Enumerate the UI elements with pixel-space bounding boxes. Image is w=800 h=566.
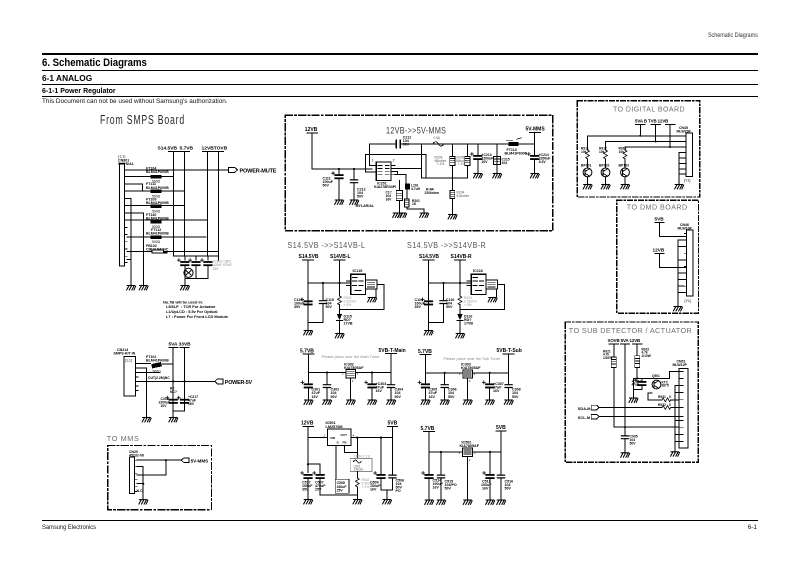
ground digital q1 xyxy=(583,185,592,189)
svg-text:5V-MMS: 5V-MMS xyxy=(191,458,209,463)
wire 5V-MMS row xyxy=(137,459,181,461)
capacitor C304 xyxy=(387,373,403,401)
ground cluster xyxy=(629,398,638,402)
svg-text:CUT(2.2M)NC: CUT(2.2M)NC xyxy=(148,376,170,380)
capacitor C211 xyxy=(396,135,411,148)
port SCL-M xyxy=(578,414,599,420)
svg-text:NC?: NC? xyxy=(170,390,177,394)
ground caps xyxy=(181,286,190,290)
capacitor C307 xyxy=(482,373,503,400)
wire POWER-MUTE row xyxy=(127,169,229,171)
svg-text:5VA B TVB 12VB: 5VA B TVB 12VB xyxy=(635,118,668,123)
capacitor C111 xyxy=(323,169,344,200)
svg-text:3: 3 xyxy=(474,451,476,455)
ground lin5 xyxy=(497,500,506,504)
svg-text:IC116: IC116 xyxy=(473,269,483,273)
junction sw out xyxy=(356,437,358,439)
node S14VB-L label xyxy=(330,254,351,260)
wire digital gnd bus xyxy=(679,153,684,185)
resistor R323 xyxy=(338,296,357,307)
svg-text:PO: PO xyxy=(396,489,401,493)
svg-text:BP103: BP103 xyxy=(619,164,629,168)
wire 12VB bus vertical xyxy=(202,152,212,257)
node 12VB dmd label xyxy=(653,248,665,254)
svg-text:25V: 25V xyxy=(315,488,322,492)
node 5VB dmd label xyxy=(655,217,665,223)
svg-text:N.C: N.C xyxy=(137,489,144,493)
svg-text:220kohm: 220kohm xyxy=(425,191,440,195)
ground main5 xyxy=(387,400,396,404)
resistor R931 xyxy=(648,393,679,402)
svg-text:25V: 25V xyxy=(337,488,344,492)
resistor R204 xyxy=(450,190,469,214)
svg-text:BLM41P600B: BLM41P600B xyxy=(505,151,528,155)
inductor L201 xyxy=(405,183,421,191)
ground sw right xyxy=(383,500,392,504)
svg-text:50V: 50V xyxy=(630,441,637,445)
ground left1 xyxy=(127,286,136,290)
node 5.7VB label main xyxy=(300,348,314,354)
wire SDA row xyxy=(599,406,662,408)
svg-text:POWER-5V: POWER-5V xyxy=(225,380,253,386)
capacitor C508 xyxy=(335,479,349,493)
ground sub5 xyxy=(504,400,513,404)
capacitor C308 xyxy=(505,373,521,400)
ground main4 xyxy=(368,400,377,404)
ground sw left xyxy=(304,500,313,504)
diode D116 zener xyxy=(457,314,473,326)
svg-text:+-5%: +-5% xyxy=(464,303,472,307)
svg-text:5VB-T-Main: 5VB-T-Main xyxy=(379,348,406,354)
connector CN214 xyxy=(114,348,139,396)
ground C215 xyxy=(493,174,502,178)
junction mms xyxy=(165,459,167,461)
wire caps tie power5v xyxy=(173,403,184,417)
svg-text:From SMPS Board: From SMPS Board xyxy=(100,113,185,127)
svg-text:TO DMD BOARD: TO DMD BOARD xyxy=(627,202,688,211)
svg-text:16V: 16V xyxy=(493,389,500,393)
capacitor C301 xyxy=(301,373,321,401)
svg-text:SDA-M: SDA-M xyxy=(578,406,591,411)
svg-text:5VB: 5VB xyxy=(496,425,506,431)
svg-text:+-1%: +-1% xyxy=(458,162,466,166)
svg-text:2884.2.18: 2884.2.18 xyxy=(354,455,370,459)
wire 12VB dmd xyxy=(660,253,687,267)
transistor BP102 xyxy=(599,164,610,185)
svg-text:OUT: OUT xyxy=(341,433,348,437)
wire sw bottom rail xyxy=(320,495,357,500)
svg-text:16V: 16V xyxy=(188,402,195,406)
ferrite bead FT111 xyxy=(146,182,169,198)
connector CN901 xyxy=(673,359,688,448)
resistor R921 xyxy=(603,349,616,367)
node 5.7VB label sub xyxy=(418,349,432,355)
node TO DMD BOARD border xyxy=(617,200,699,313)
svg-text:1/10W: 1/10W xyxy=(642,354,651,358)
svg-text:R931: R931 xyxy=(658,395,666,399)
ground digital bus xyxy=(675,185,684,189)
junction R2 xyxy=(459,282,461,284)
wire S14VB-L output line xyxy=(339,260,341,334)
svg-text:5.7VB: 5.7VB xyxy=(418,349,432,355)
svg-text:10k: 10k xyxy=(619,150,625,154)
inductor L501 xyxy=(350,455,372,472)
transistor BP101 xyxy=(581,164,592,185)
IC IC502 xyxy=(459,441,480,500)
wire IC201 right staircase xyxy=(391,169,421,184)
wire sub det feeds xyxy=(609,344,642,435)
wire IC501 fb leg xyxy=(336,438,357,480)
junction cluster xyxy=(636,377,638,379)
svg-text:5VB-T-Sub: 5VB-T-Sub xyxy=(497,348,522,354)
wire digital feeds xyxy=(636,124,675,147)
ground digital q3 xyxy=(621,185,630,189)
transistor Q901 xyxy=(652,374,669,389)
ground power5v left xyxy=(142,418,151,422)
svg-text:1/10W: 1/10W xyxy=(603,356,612,360)
wire row pin4 to 5.7VB xyxy=(127,190,185,192)
svg-text:L7 : Power For Front-LCD Modul: L7 : Power For Front-LCD Module xyxy=(166,314,229,319)
capacitor C217 xyxy=(177,395,198,406)
junction xovb cap xyxy=(624,426,626,428)
svg-text:R932: R932 xyxy=(658,403,666,407)
wire IC116 right loop xyxy=(460,285,505,310)
svg-text:SCL-M: SCL-M xyxy=(578,415,590,420)
node S14VB-R label xyxy=(451,254,473,260)
svg-text:12VB: 12VB xyxy=(301,420,314,426)
wire digital h2 xyxy=(606,141,687,143)
svg-text:47uF: 47uF xyxy=(632,383,639,387)
svg-text:16V: 16V xyxy=(370,488,377,492)
resistor R922 xyxy=(635,347,651,367)
wire row pin2 to S14.5VB xyxy=(127,176,174,178)
wire row pin13 stub xyxy=(127,258,131,260)
svg-text:50V: 50V xyxy=(403,143,410,147)
svg-text:S14.5VB: S14.5VB xyxy=(158,146,178,152)
junction 12vb tap xyxy=(307,463,309,465)
svg-text:5.6kohm: 5.6kohm xyxy=(457,194,470,198)
junction sub bus xyxy=(444,372,446,374)
ground sub2 xyxy=(440,400,449,404)
node 5VB-T-Sub label xyxy=(497,348,522,354)
svg-text:1K: 1K xyxy=(412,202,417,206)
svg-text:12VB->>5V-MMS: 12VB->>5V-MMS xyxy=(386,126,446,136)
ground C113 xyxy=(304,331,313,335)
svg-text:(1,1): (1,1) xyxy=(125,358,132,362)
svg-text:S14.5VB: S14.5VB xyxy=(299,254,319,260)
wire S14VB-R output line xyxy=(459,260,461,334)
svg-text:104: 104 xyxy=(502,161,508,165)
svg-text:5VB: 5VB xyxy=(388,420,398,426)
capacitor C802 xyxy=(189,259,201,267)
node 390 label xyxy=(170,386,177,393)
node 5VB label lin xyxy=(496,425,506,431)
node 5VB-T-Main label xyxy=(379,348,406,354)
svg-text:TO SUB DETECTOR / ACTUATOR: TO SUB DETECTOR / ACTUATOR xyxy=(569,326,692,335)
ferrite bead FT104 xyxy=(146,167,169,184)
IC IC115 xyxy=(346,269,377,294)
ground C111 xyxy=(335,200,344,204)
wire row pin3 jog xyxy=(127,184,143,191)
IC IC302 xyxy=(342,362,364,400)
svg-text:BLM41P600B: BLM41P600B xyxy=(146,170,169,174)
ferrite bead FT140 xyxy=(146,213,169,229)
ferrite bead FT109 xyxy=(146,197,169,213)
wire row pin10 xyxy=(127,236,206,238)
svg-text:35V: 35V xyxy=(294,305,301,309)
svg-text:S14.5VB ->>S14VB-L: S14.5VB ->>S14VB-L xyxy=(288,241,366,250)
resistor FB102 xyxy=(146,244,169,253)
junction lin bus xyxy=(440,451,442,453)
connector CN860 xyxy=(677,126,693,182)
wire main tuner bus xyxy=(308,354,391,373)
resistor R911 xyxy=(581,136,589,168)
svg-text:5V-MMS: 5V-MMS xyxy=(526,127,546,133)
wire sub tuner bus xyxy=(425,354,508,373)
svg-text:35V: 35V xyxy=(415,305,422,309)
wire POWER-5V row xyxy=(138,380,215,382)
wire IC115 right loop xyxy=(340,285,385,310)
svg-text:XOVB 5VA 12VB: XOVB 5VA 12VB xyxy=(608,338,641,343)
svg-text:S14VB-R: S14VB-R xyxy=(451,254,473,260)
svg-text:Please place near the Main Tu: Please place near the Main Tuner xyxy=(322,354,381,359)
ground C931 xyxy=(621,453,630,457)
svg-text:S14.5VB ->>S14VB-R: S14.5VB ->>S14VB-R xyxy=(407,241,486,250)
ferrite bead FT102 xyxy=(146,355,169,374)
fuse F201 xyxy=(433,136,444,146)
ground sub3 xyxy=(463,400,472,404)
svg-text:12VB: 12VB xyxy=(305,127,318,133)
svg-text:S14VB-L: S14VB-L xyxy=(330,254,351,260)
wire IC501 out rail xyxy=(351,426,393,437)
ground C213 xyxy=(474,174,483,178)
resistor R324 xyxy=(458,296,477,307)
svg-text:SMPS/AL: SMPS/AL xyxy=(118,162,135,166)
ground C203 b xyxy=(398,213,407,217)
node 5VB label sw xyxy=(388,420,398,426)
junction R1 xyxy=(442,282,444,284)
capacitor C306 xyxy=(441,373,456,400)
ground lin3 xyxy=(463,500,472,504)
wire 12VB feed xyxy=(312,133,372,169)
junction L2 xyxy=(338,282,340,284)
svg-text:SMPS-KIT IN: SMPS-KIT IN xyxy=(114,351,136,355)
capacitor C921 xyxy=(632,378,647,389)
capacitor C803 xyxy=(201,259,213,267)
svg-text:50V: 50V xyxy=(323,184,330,188)
capacitor C115 xyxy=(308,283,334,323)
wire S14.5VB-L input xyxy=(308,260,351,323)
node S14.5VB label R xyxy=(419,254,439,260)
capacitor C515 xyxy=(437,452,456,500)
svg-text:MLW12P: MLW12P xyxy=(673,363,688,367)
svg-text:2: 2 xyxy=(469,379,471,383)
capacitor C302 xyxy=(323,373,339,401)
node 12VB->>5V-MMS block border xyxy=(285,115,553,231)
capacitor C305 xyxy=(418,373,438,400)
svg-text:16V: 16V xyxy=(376,389,383,393)
svg-text:0: 0 xyxy=(669,395,671,399)
svg-text:S14.5VB: S14.5VB xyxy=(419,254,439,260)
svg-text:5VB: 5VB xyxy=(655,217,665,222)
junction L1 xyxy=(322,282,324,284)
ground C212 xyxy=(350,200,359,204)
svg-text:50V: 50V xyxy=(326,305,333,309)
wire xovb down xyxy=(614,368,679,428)
capacitor C203 below IC xyxy=(386,181,403,214)
ground R204 xyxy=(448,215,457,219)
capacitor C516 xyxy=(497,452,513,500)
capacitor C303 xyxy=(365,373,387,401)
svg-text:+-5%: +-5% xyxy=(344,303,352,307)
junction main bus xyxy=(326,371,328,373)
svg-text:16V: 16V xyxy=(213,267,220,271)
resistor R913 xyxy=(619,146,627,167)
wire dmd gnd bus xyxy=(678,240,684,307)
svg-text:BLM41P600B: BLM41P600B xyxy=(146,186,169,190)
ground C203 a xyxy=(393,213,402,217)
diode D115 zener xyxy=(337,314,353,326)
wire row pin7 stub xyxy=(127,213,144,286)
capacitor C216 xyxy=(159,396,178,408)
capacitor C801 xyxy=(177,259,189,267)
node S14.5VB label L xyxy=(299,254,319,260)
ground R201 xyxy=(420,213,429,217)
svg-text:G: G xyxy=(337,441,340,445)
svg-text:+-1%: +-1% xyxy=(362,485,370,489)
wire lin bus xyxy=(429,431,501,452)
svg-text:10V: 10V xyxy=(161,404,168,408)
svg-text:BLM41P600B: BLM41P600B xyxy=(146,358,169,362)
svg-text:BP102: BP102 xyxy=(599,164,609,168)
node 5V-MMS label xyxy=(526,127,546,133)
svg-text:TO MMS: TO MMS xyxy=(107,434,140,443)
ground lin1 xyxy=(425,500,434,504)
capacitor C509 xyxy=(370,438,386,492)
wire bottom bus of SMPS block xyxy=(174,256,219,260)
svg-text:50V: 50V xyxy=(357,195,364,199)
wire 5VA vertical xyxy=(169,348,189,411)
svg-text:16V: 16V xyxy=(312,395,319,399)
svg-text:50V: 50V xyxy=(445,487,452,491)
capacitor C514 xyxy=(422,452,444,500)
svg-text:0: 0 xyxy=(669,403,671,407)
svg-text:[Y1]: [Y1] xyxy=(685,299,691,303)
capacitor C116 xyxy=(429,283,455,323)
ground mms xyxy=(139,500,148,504)
ferrite bead FT112 xyxy=(146,228,169,244)
ground main2 xyxy=(323,400,332,404)
svg-text:4.7uH: 4.7uH xyxy=(411,187,421,191)
ground sub1 xyxy=(421,400,430,404)
ground S14VB-R xyxy=(456,334,465,338)
capacitor C215 xyxy=(494,144,510,174)
wire digital h1 xyxy=(588,135,687,137)
wire row pin11 to TOVB xyxy=(127,251,219,253)
svg-text:VIN: VIN xyxy=(330,436,336,440)
svg-text:150uH: 150uH xyxy=(354,468,364,472)
wire 5.7VB bus vertical xyxy=(179,152,189,257)
IC IC303 xyxy=(459,363,481,400)
ground lin4 xyxy=(486,500,495,504)
svg-text:10V: 10V xyxy=(482,160,489,164)
wire digital h3 xyxy=(625,146,686,148)
wire sub det gnd bus xyxy=(675,386,679,452)
svg-text:Please place near the Sub Tun: Please place near the Sub Tuner xyxy=(444,356,501,361)
svg-text:16V: 16V xyxy=(429,395,436,399)
wire FT102 net xyxy=(138,364,173,418)
ground lin2 xyxy=(437,500,446,504)
connector CN801 xyxy=(118,155,135,267)
svg-text:5.7VB: 5.7VB xyxy=(421,426,435,432)
ground main3 xyxy=(346,400,355,404)
node TO DIGITAL BOARD border xyxy=(577,101,700,197)
svg-text:KIA278R33PI: KIA278R33PI xyxy=(374,185,396,189)
svg-text:50V: 50V xyxy=(448,395,455,399)
svg-text:1: 1 xyxy=(324,434,326,438)
wire 12VB to IC501 xyxy=(308,426,328,472)
wire 5VB dmd xyxy=(660,222,687,236)
svg-text:12VB: 12VB xyxy=(653,248,665,253)
node 12VB label sw xyxy=(301,420,314,426)
ground S14VB-L xyxy=(335,334,344,338)
resistor R932 xyxy=(658,403,679,409)
svg-text:IC115: IC115 xyxy=(353,269,363,273)
ground sub4 xyxy=(485,400,494,404)
svg-text:50V: 50V xyxy=(395,395,402,399)
capacitor C506 xyxy=(389,438,404,494)
ground power5v caps xyxy=(169,418,178,422)
svg-text:50V: 50V xyxy=(505,487,512,491)
node 12VB label xyxy=(305,127,318,133)
capacitor C512 xyxy=(481,452,495,500)
svg-text:16V: 16V xyxy=(386,197,393,201)
node TO SUB DETECTOR border xyxy=(565,322,698,462)
capacitor C114 xyxy=(415,298,434,309)
wire row pin5 stub xyxy=(127,198,131,285)
ferrite bead FT113 xyxy=(505,138,528,156)
port 5V-MMS out xyxy=(181,458,208,464)
transistor BP103 xyxy=(619,164,630,185)
wire S14.5VB-R input xyxy=(429,260,472,323)
wire sw right tie xyxy=(381,490,393,500)
svg-text:10k: 10k xyxy=(581,150,587,154)
ground C114 xyxy=(424,331,433,335)
junction mms2 xyxy=(142,483,144,485)
svg-text:POWER-MUTE: POWER-MUTE xyxy=(240,168,277,174)
wire 5V-MMS drop xyxy=(534,133,536,144)
capacitor C213 xyxy=(470,144,493,174)
svg-text:1: 1 xyxy=(459,451,461,455)
svg-text:16V: 16V xyxy=(433,486,440,490)
svg-text:FB: FB xyxy=(343,441,348,445)
svg-text:50V: 50V xyxy=(446,305,453,309)
svg-text:MYLAR/AL: MYLAR/AL xyxy=(356,204,375,208)
svg-text:10k: 10k xyxy=(599,150,605,154)
resistor R205 xyxy=(456,144,470,178)
ground dmd bus xyxy=(674,307,683,311)
ground left2 xyxy=(139,286,148,290)
ground sub det bus xyxy=(671,452,680,456)
wire mms loop xyxy=(137,460,166,499)
svg-text:35V: 35V xyxy=(302,488,309,492)
ground digital q2 xyxy=(601,185,610,189)
svg-text:BP101: BP101 xyxy=(581,164,591,168)
port SDA-M xyxy=(578,405,599,411)
IC IC201 xyxy=(372,158,398,189)
svg-text:2: 2 xyxy=(352,379,354,383)
svg-text:5.7VB: 5.7VB xyxy=(300,348,314,354)
